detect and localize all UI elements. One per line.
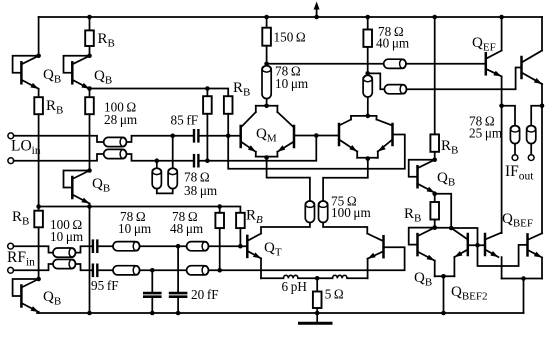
node [449,226,454,231]
wire [347,277,368,279]
terminal IF out left [512,155,518,161]
wire [443,276,445,313]
wire [227,114,229,136]
svg-text:28 μm: 28 μm [104,112,138,127]
svg-text:150 Ω: 150 Ω [274,30,306,45]
transistor Q_M B (inner left) [293,126,296,147]
svg-text:95 fF: 95 fF [91,278,119,293]
wire [531,106,542,126]
wire [298,277,317,279]
wire [407,68,522,90]
transistor Q_BEF2 left [467,234,470,255]
wire [89,204,91,207]
resistor R_B (LO bias right) [224,96,233,114]
wire VCC top rail [39,16,542,18]
wire [38,89,40,97]
resistor R_B (left column lower) [34,211,43,228]
transmission line 100ohm 10um [53,248,76,257]
wire left emitters to TL [267,158,310,202]
node [226,134,231,139]
wire [541,258,543,279]
transistor Q_T left [246,236,249,257]
svg-text:6 pH: 6 pH [282,279,308,294]
transmission line 78ohm 25um (right) [527,126,536,144]
node [217,268,222,273]
wire bias line (horizontal) [39,207,241,213]
wire Q_M left collector bus [256,105,278,107]
wire RF top [14,246,54,252]
transistor Q_B (diode-connected, second) [87,54,92,59]
transistor Q_BEF2 right [484,234,487,255]
transistor Q_T right [382,236,385,257]
wire Q_M left emitter bus [256,156,278,158]
transmission line 78ohm 48um (RF top) [187,242,209,251]
capacitor 20fF right [170,292,186,295]
terminal LO+ [8,133,14,139]
wire [501,232,503,235]
wire LO bias line [90,89,229,97]
power supply arrow [316,7,318,16]
wire [261,223,310,234]
transmission line 78ohm 10um (RF top) [113,242,140,251]
transistor Q_B (diode-connected, top-left) [36,54,41,59]
node [366,156,371,161]
wire Q_M right emitter bus [357,157,378,159]
wire [266,17,268,28]
wire [501,257,503,278]
capacitor 95fF bottom [92,265,94,276]
svg-text:5 Ω: 5 Ω [325,287,344,302]
transmission line 75ohm 100um (right) [319,201,328,223]
node mixer out right [365,71,370,76]
node [205,158,210,163]
node [315,276,320,281]
inductor 6pH left [284,275,289,278]
transistor Q_M D (outer right) [391,124,394,145]
resistor R_B (right chain 1) [430,134,439,151]
node [176,311,181,316]
terminal IF out right [528,155,534,161]
node [264,104,269,109]
node [150,311,155,316]
node [475,243,480,248]
wire [435,227,452,229]
wire [89,46,91,56]
wire [317,277,332,279]
wire [38,227,40,279]
wire emitter bus [502,278,542,280]
node [432,225,437,230]
transmission line (LO top) [104,137,127,146]
transistor Q_M A (outer left) [239,126,242,147]
wire [316,278,318,291]
wire [151,298,153,313]
wire RF bottom [14,264,54,270]
wire Q_EF right emitter down [541,84,543,233]
node [499,104,504,109]
wire [434,17,436,134]
wire [367,259,369,279]
wire [172,136,174,168]
capacitor 85fF bottom [193,155,195,166]
ground [316,313,318,322]
transmission line 78ohm 10um (vertical) [262,66,271,99]
wire [530,144,532,155]
transmission line 78ohm 38um (right) [168,168,177,188]
transistor Q_EF left [485,53,488,74]
resistor 100ohm 28um [85,97,94,114]
wire [76,264,92,270]
wire bias-to-ground drop [89,207,91,314]
wire [434,152,436,160]
resistor 5ohm [313,292,322,309]
svg-text:40 μm: 40 μm [376,36,410,51]
capacitor 20fF left [144,292,160,295]
node [170,134,175,139]
transmission line to Q_EF right [384,85,406,94]
wire [541,17,543,51]
wire Q_M right collector bus [351,115,377,117]
node mixer out left [264,62,269,67]
wire [177,298,179,313]
terminal LO- [8,158,14,164]
wire [266,99,268,106]
wire [501,17,503,51]
wire Q_T right base [384,247,405,270]
node [264,155,269,160]
wire [453,257,455,276]
transmission line (RF bottom 3) [187,266,209,275]
wire [219,228,221,270]
node [238,244,243,249]
wire shorted stub bridge [157,189,173,194]
wire [276,152,278,157]
wire [127,154,193,161]
wire [514,144,516,155]
wire [377,152,379,158]
node bias line left [36,204,41,209]
transistor Q_BEF [526,234,529,255]
wire [367,17,369,30]
wire [434,261,436,277]
transmission line 78ohm 38um (left) [152,168,161,188]
wire base to Q_BEF [478,245,528,266]
transmission line (RF bottom) [53,259,76,268]
resistor R_B (right chain 2) [430,202,439,220]
svg-text:20 fF: 20 fF [191,287,219,302]
wire [502,106,515,126]
resistor R_B (RF bias left) [215,213,224,228]
node [540,104,545,109]
wire emitter line [261,277,284,279]
node [176,244,181,249]
wire mixer-out left to EF [267,63,384,65]
transmission line 75ohm 100um (left) [305,201,314,223]
wire [367,97,369,116]
wire [38,312,40,313]
transmission line (LO bottom) [104,149,127,158]
wire jog to lower EF line [368,73,385,89]
wire [255,152,257,157]
wire LO top [14,136,104,142]
wire [266,46,268,66]
node LO bias junction [87,86,92,91]
wire [99,245,247,247]
capacitor 85fF top [193,130,195,141]
transistor Q_B (diode-connected, LO bias) [87,168,92,173]
inductor 6pH right [333,275,338,278]
wire [76,246,92,252]
node [441,274,446,279]
wire [523,279,525,314]
resistor R_B (RF bias right) [236,213,245,228]
wire [127,136,193,142]
wire Q_EF left emitter down [501,76,503,233]
transmission line to Q_EF left [384,59,406,68]
resistor R_B (second column) [85,30,94,46]
wire [367,47,369,75]
wire LO+ underpass to Q_M outer-right base [228,135,405,169]
node [87,204,92,209]
transistor Q_B (diode, right chain 2) [432,225,437,230]
node [521,276,526,281]
capacitor 95fF top [92,241,94,252]
terminal RF+ [8,243,14,249]
wire [316,308,318,313]
node [87,311,92,316]
wire [451,228,477,245]
svg-text:10 μm: 10 μm [50,229,84,244]
node [205,86,210,91]
transmission line 75-ohm-ish (vertical right) [363,75,372,97]
wire branch to BEF2 collector [435,194,452,228]
wire B-C base line [294,135,339,137]
wire [200,136,316,161]
node [441,311,446,316]
wire [239,228,241,246]
node [314,133,319,138]
wire [177,246,179,292]
svg-text:10 μm: 10 μm [275,76,309,91]
wire [38,114,40,206]
resistor 78ohm 40um [363,30,372,47]
wire [38,17,40,56]
resistor R_B (LO bias left) [203,96,212,114]
wire [356,152,358,158]
wire [151,270,153,292]
transmission line 78ohm 25um (left) [510,126,519,144]
resistor 150ohm [262,28,271,46]
wire [323,223,367,234]
svg-text:100 μm: 100 μm [331,205,371,220]
svg-text:25 μm: 25 μm [469,126,503,141]
wire [206,114,208,161]
wire [434,194,436,202]
svg-text:38 μm: 38 μm [184,183,218,198]
svg-text:10 μm: 10 μm [118,221,152,236]
wire [89,114,91,170]
wire [406,63,486,65]
transistor Q_EF right [520,57,523,78]
resistor R_B (left column upper) [34,97,43,114]
node [155,158,160,163]
node [150,268,155,273]
wire LO bottom [14,154,104,161]
wire emitter join [435,275,455,277]
wire [434,220,436,228]
wire [89,17,91,30]
transistor Q_M C (inner right) [338,124,341,145]
wire [89,89,91,97]
wire [260,258,262,278]
svg-text:48 μm: 48 μm [170,221,204,236]
wire RF bottom line [99,269,405,271]
node [366,114,371,119]
transmission line (RF bottom 2) [113,266,140,275]
node [217,204,222,209]
transistor Q_B (diode-connected, bottom-left) [36,277,41,282]
wire BEF2 base link [468,244,485,246]
wire [200,135,241,137]
wire ground bottom rail [37,312,524,314]
transistor Q_B (diode, right chain 1) [432,157,437,162]
stub transmission line 78ohm38um left [156,161,158,169]
wire right emitters to TL [323,159,368,201]
terminal RF- [8,267,14,273]
svg-text:85 fF: 85 fF [171,113,199,128]
